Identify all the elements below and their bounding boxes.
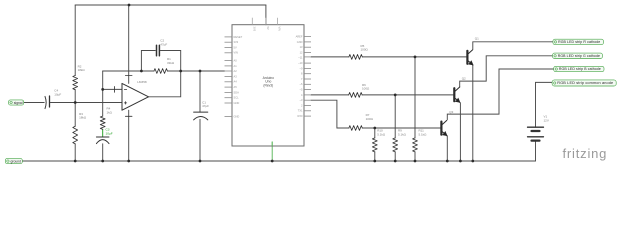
wire signal label to C4: [24, 102, 45, 104]
label C3 (green): [106, 128, 113, 136]
svg-text:18kΩ: 18kΩ: [79, 116, 87, 120]
wire op-amp V- pin to ground rail: [128, 110, 130, 161]
svg-text:3V3: 3V3: [234, 40, 239, 44]
svg-text:100Ω: 100Ω: [366, 117, 374, 121]
svg-text:signal: signal: [14, 101, 23, 105]
svg-text:A3: A3: [234, 74, 238, 78]
svg-text:RGB LED strip G cathode: RGB LED strip G cathode: [558, 54, 600, 58]
capacitor C2 47uF plates: [157, 45, 160, 55]
wire R11 bottom to ground rail: [414, 152, 416, 161]
svg-text:A1: A1: [234, 64, 238, 68]
svg-text:1kΩ: 1kΩ: [107, 110, 113, 114]
wire battery to common-anode label: [536, 81, 553, 83]
Arduino Uno U2 body: [232, 25, 304, 146]
wire R9 bottom to ground rail: [394, 152, 396, 161]
wire node A to R3: [74, 103, 76, 127]
net label RGB LED strip common anode: [552, 80, 616, 86]
svg-text:fritzing: fritzing: [563, 146, 608, 161]
wire Arduino D10 to R6: [311, 94, 349, 96]
Arduino pins left side: [225, 37, 233, 117]
svg-text:A5: A5: [234, 85, 238, 89]
resistor R7 100: [349, 126, 362, 131]
Arduino pins top (3V3, 5V, VIN): [252, 18, 277, 25]
wire R9 pulldown top: [394, 95, 396, 138]
wire Arduino D9 elbow to R7: [311, 100, 349, 128]
svg-text:SCL: SCL: [234, 96, 240, 100]
Arduino pin labels: [234, 27, 304, 119]
resistor R10 5.1k: [372, 138, 377, 152]
wire R5 to node R: [362, 56, 415, 58]
resistor R5 100: [349, 55, 362, 60]
svg-text:TX1: TX1: [298, 109, 303, 113]
op-amp minus sign: [124, 88, 126, 90]
svg-text:33kΩ: 33kΩ: [167, 61, 175, 65]
wire 5V top rail: [75, 4, 266, 6]
wire 5V rail down to op-amp V+ pin: [128, 5, 130, 83]
resistor R2 18k: [73, 76, 78, 90]
svg-text:100Ω: 100Ω: [361, 48, 369, 52]
wire C2 branch right: [160, 51, 180, 72]
transistor Q2 NPN: [454, 87, 460, 102]
wire Q3 emitter to ground rail: [446, 136, 448, 161]
wire R4 to C3 (green segment): [102, 129, 104, 137]
svg-text:RGB LED strip common anode: RGB LED strip common anode: [557, 81, 613, 85]
op-amp plus sign: [124, 102, 126, 104]
wire R11 pulldown top: [414, 57, 416, 138]
wire R6 to node G: [362, 94, 395, 96]
svg-text:Q2: Q2: [462, 77, 466, 81]
svg-text:47µF: 47µF: [160, 42, 167, 46]
svg-text:LM358: LM358: [137, 80, 147, 84]
svg-text:RGB LED strip R cathode: RGB LED strip R cathode: [558, 40, 600, 44]
wire R10 bottom to ground rail: [374, 152, 376, 161]
resistor R4 1k: [100, 116, 105, 129]
svg-text:RESET: RESET: [234, 35, 243, 39]
svg-text:GND: GND: [234, 101, 240, 105]
wire C4 to op-amp non-inverting input: [50, 102, 122, 104]
wire Q3 collector riser: [447, 69, 553, 120]
wire C2 branch left: [141, 51, 155, 72]
svg-text:5.1kΩ: 5.1kΩ: [419, 132, 428, 136]
Arduino pins right side: [304, 37, 311, 117]
svg-text:ground: ground: [11, 159, 22, 163]
wire node G to Q2 base: [395, 94, 453, 96]
svg-text:100Ω: 100Ω: [362, 87, 370, 91]
resistor R1 33k: [154, 69, 167, 74]
svg-text:Q1: Q1: [475, 37, 479, 41]
svg-text:AREF: AREF: [296, 35, 303, 39]
wire battery positive: [535, 82, 537, 127]
wire C1 bottom to ground rail: [199, 119, 201, 161]
wire ground rail: [22, 160, 535, 162]
svg-text:A0: A0: [234, 59, 238, 63]
resistor R3 18k: [73, 126, 78, 144]
svg-text:VIN: VIN: [278, 27, 282, 31]
net label ground: [5, 158, 22, 163]
wire Q2 emitter to ground rail: [459, 103, 461, 161]
wire 5V rail to Arduino 5V pin: [265, 5, 267, 25]
capacitor C1 47uF plates: [194, 111, 208, 113]
svg-text:A2: A2: [234, 69, 238, 73]
svg-text:A4: A4: [234, 80, 238, 84]
wire R2 bottom to node A: [74, 90, 76, 103]
wire Q2 collector riser: [460, 56, 553, 87]
Arduino GND pin bottom green stub: [271, 142, 273, 146]
svg-text:RGB LED strip B cathode: RGB LED strip B cathode: [559, 67, 601, 71]
wire battery negative to ground rail: [535, 141, 537, 161]
svg-text:GND: GND: [234, 114, 240, 118]
svg-text:Q3: Q3: [449, 110, 453, 114]
wire feedback node vertical: [102, 71, 104, 116]
svg-text:VIN: VIN: [234, 51, 238, 55]
resistor R11 5.1k: [413, 138, 418, 152]
svg-text:GND: GND: [297, 40, 303, 44]
wire inverting input node to op-amp: [103, 88, 122, 90]
wire Arduino GND pin to ground rail (green): [271, 142, 273, 161]
capacitor C3 10uF plates: [96, 136, 109, 138]
svg-text:5V: 5V: [234, 45, 237, 49]
Arduino title text: [263, 76, 275, 87]
transistor Q1 NPN: [467, 50, 473, 65]
net label RGB LED strip G cathode: [553, 53, 603, 58]
op-amp U1 LM358 triangle: [122, 83, 149, 110]
capacitor C4 10uF plates: [45, 96, 46, 108]
wire C3 to ground rail: [102, 144, 104, 161]
wire 5V rail down to R2: [74, 5, 76, 76]
svg-text:10µF: 10µF: [54, 92, 61, 96]
wire Q1 emitter to ground rail: [472, 65, 474, 161]
svg-text:SDA: SDA: [234, 90, 240, 94]
op-amp V+ pin tick: [125, 75, 132, 77]
wire R10 pulldown top: [374, 128, 376, 138]
wire node R to Q1 base: [415, 56, 466, 58]
svg-text:12V: 12V: [544, 118, 549, 122]
op-amp V- pin tick: [125, 115, 132, 117]
resistor R6 100: [349, 93, 362, 98]
wire op-amp output: [149, 71, 181, 97]
svg-text:5.1kΩ: 5.1kΩ: [398, 132, 407, 136]
svg-text:5V: 5V: [266, 27, 270, 30]
svg-text:RX0: RX0: [297, 114, 303, 118]
net label signal: [9, 100, 24, 105]
battery V1 plates: [528, 127, 544, 137]
component reference/value labels: [54, 37, 549, 137]
svg-text:5.1kΩ: 5.1kΩ: [377, 132, 386, 136]
wire node B to Q3 base: [375, 127, 441, 129]
svg-text:(Rev3): (Rev3): [263, 83, 273, 87]
wire Arduino D11 to R5: [311, 56, 349, 58]
wire C1 top: [199, 71, 201, 112]
resistor R9 5.1k: [393, 138, 398, 152]
wire R7 to node B: [362, 127, 375, 129]
transistor Q3 NPN: [441, 120, 447, 135]
wire Q1 collector to R-cathode label: [473, 42, 553, 49]
net label RGB LED strip R cathode: [553, 39, 604, 44]
net label RGB LED strip B cathode: [554, 66, 604, 71]
svg-text:18kΩ: 18kΩ: [78, 68, 86, 72]
svg-text:~11: ~11: [298, 56, 303, 60]
op-amp inverting input pin tick: [114, 87, 116, 93]
wire feedback row (R1 row): [103, 70, 225, 72]
svg-text:~10: ~10: [298, 61, 303, 65]
svg-text:10µF: 10µF: [106, 131, 113, 135]
wire R3 bottom to ground rail: [74, 144, 76, 161]
svg-text:47µF: 47µF: [202, 104, 209, 108]
